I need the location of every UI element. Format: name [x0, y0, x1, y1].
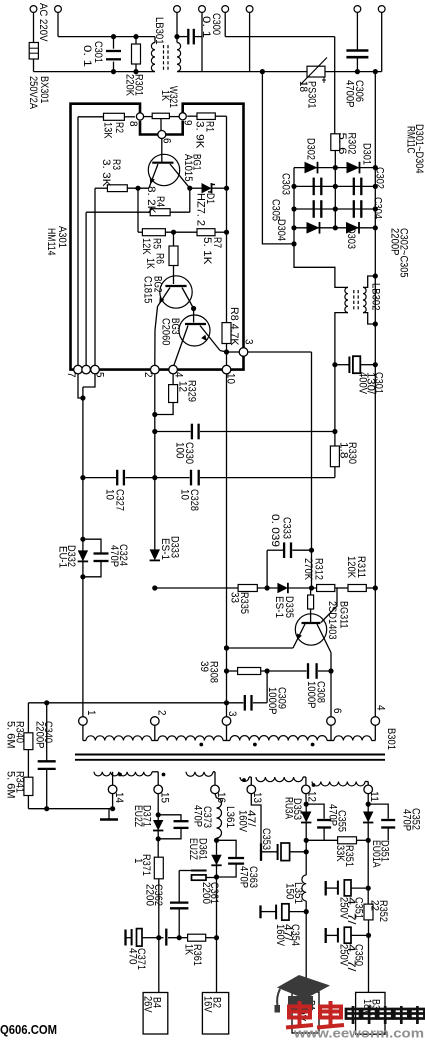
svg-text:EU2Z: EU2Z	[132, 805, 144, 827]
svg-text:C333: C333	[281, 517, 293, 539]
svg-text:1: 1	[85, 710, 97, 716]
svg-text:250V: 250V	[338, 944, 350, 966]
svg-text:2SD1403: 2SD1403	[326, 601, 338, 640]
svg-text:13K: 13K	[102, 122, 114, 139]
svg-text:C352: C352	[410, 808, 422, 830]
svg-text:BG311: BG311	[338, 601, 350, 629]
svg-text:LB301: LB301	[153, 17, 165, 45]
svg-text:C373: C373	[201, 806, 213, 828]
svg-text:2200P: 2200P	[34, 721, 46, 749]
svg-text:B301: B301	[385, 728, 397, 750]
svg-text:R4: R4	[154, 196, 166, 207]
svg-text:5. 6M: 5. 6M	[5, 771, 17, 799]
svg-text:10: 10	[104, 489, 116, 500]
svg-text:8: 8	[127, 121, 139, 127]
svg-text:R8 4.7K: R8 4.7K	[228, 307, 240, 346]
svg-text:L361: L361	[224, 806, 236, 828]
svg-text:R352: R352	[377, 900, 389, 922]
svg-text:1: 1	[132, 858, 144, 864]
svg-text:14: 14	[113, 792, 125, 803]
svg-text:HZ7. 2: HZ7. 2	[195, 193, 207, 226]
svg-text:2: 2	[156, 710, 168, 716]
svg-text:4: 4	[173, 372, 185, 378]
svg-text:13: 13	[251, 792, 263, 803]
svg-text:270K: 270K	[302, 558, 314, 580]
svg-text:LB302: LB302	[370, 283, 382, 311]
svg-text:3: 3	[243, 339, 255, 345]
svg-text:D301: D301	[361, 143, 373, 165]
svg-text:12K: 12K	[140, 238, 152, 255]
svg-text:C324: C324	[117, 544, 129, 566]
svg-text:R2: R2	[113, 122, 125, 133]
svg-text:7: 7	[65, 372, 77, 378]
svg-text:C306: C306	[353, 80, 365, 102]
svg-text:C1815: C1815	[142, 276, 154, 304]
svg-text:PS301: PS301	[306, 81, 318, 109]
svg-text:R329: R329	[186, 380, 198, 402]
svg-text:6: 6	[331, 708, 343, 714]
svg-text:26V: 26V	[142, 996, 154, 1013]
svg-text:R7: R7	[211, 237, 223, 248]
svg-text:11: 11	[368, 791, 380, 802]
svg-text:R311: R311	[355, 556, 367, 578]
svg-text:R330: R330	[346, 442, 358, 464]
svg-text:HM114: HM114	[45, 228, 57, 256]
svg-text:1K: 1K	[144, 258, 156, 269]
svg-text:EU-1: EU-1	[57, 546, 69, 568]
svg-text:400V: 400V	[357, 372, 369, 394]
svg-text:D333: D333	[169, 536, 181, 558]
svg-text:Q606.COM: Q606.COM	[0, 1023, 57, 1037]
svg-text:100: 100	[174, 442, 186, 459]
svg-text:C353: C353	[260, 828, 272, 850]
svg-text:C305: C305	[270, 199, 282, 221]
svg-text:15: 15	[159, 792, 171, 803]
svg-text:16V: 16V	[202, 996, 214, 1013]
svg-text:150: 150	[284, 883, 296, 900]
svg-text:D351: D351	[379, 840, 391, 862]
svg-text:C304: C304	[372, 197, 384, 219]
svg-text:250V: 250V	[338, 897, 350, 919]
svg-text:D302: D302	[305, 138, 317, 160]
svg-text:2200: 2200	[144, 884, 156, 906]
svg-text:2200: 2200	[200, 882, 212, 904]
svg-text:D303: D303	[345, 227, 357, 249]
svg-text:3. 9K: 3. 9K	[194, 121, 206, 149]
svg-text:C303: C303	[280, 173, 292, 195]
svg-text:3: 3	[226, 711, 238, 717]
svg-text:0. 1: 0. 1	[200, 16, 212, 38]
svg-text:0. 1: 0. 1	[81, 45, 93, 67]
svg-text:R312: R312	[313, 558, 325, 580]
svg-text:C355: C355	[336, 810, 348, 832]
svg-text:D353: D353	[291, 798, 303, 820]
svg-text:250V2A: 250V2A	[27, 76, 39, 109]
svg-text:C309: C309	[276, 687, 288, 709]
svg-text:10: 10	[179, 489, 191, 500]
svg-text:R3: R3	[110, 159, 122, 170]
svg-text:D304: D304	[275, 219, 287, 241]
svg-text:12: 12	[306, 791, 318, 802]
svg-text:D335: D335	[283, 596, 295, 618]
svg-text:C302: C302	[374, 167, 386, 189]
svg-text:D301~D304: D301~D304	[413, 124, 425, 174]
svg-text:470P: 470P	[238, 866, 250, 888]
svg-text:5. 6M: 5. 6M	[5, 721, 17, 749]
svg-text:W321: W321	[167, 86, 179, 108]
svg-text:39: 39	[198, 661, 210, 672]
svg-text:C302~C305: C302~C305	[398, 228, 410, 278]
svg-text:9: 9	[182, 120, 194, 126]
svg-text:R301: R301	[133, 74, 145, 96]
svg-text:AC 220V: AC 220V	[37, 3, 49, 42]
svg-text:2: 2	[142, 372, 154, 378]
svg-text:33K: 33K	[334, 845, 346, 862]
svg-text:www.eeworm.com: www.eeworm.com	[293, 1026, 424, 1040]
svg-text:C308: C308	[315, 681, 327, 703]
svg-text:160V: 160V	[274, 924, 286, 946]
svg-text:1K: 1K	[183, 944, 195, 955]
svg-text:R5: R5	[151, 238, 163, 249]
svg-text:R302: R302	[346, 133, 358, 155]
svg-text:160V: 160V	[237, 810, 249, 832]
svg-text:C2060: C2060	[160, 318, 172, 346]
svg-text:0. 039: 0. 039	[269, 514, 281, 547]
svg-text:R335: R335	[238, 592, 250, 614]
svg-text:EU2Z: EU2Z	[187, 838, 199, 860]
svg-text:470: 470	[127, 948, 139, 965]
svg-text:A1015: A1015	[182, 154, 194, 182]
svg-text:4: 4	[375, 705, 387, 711]
